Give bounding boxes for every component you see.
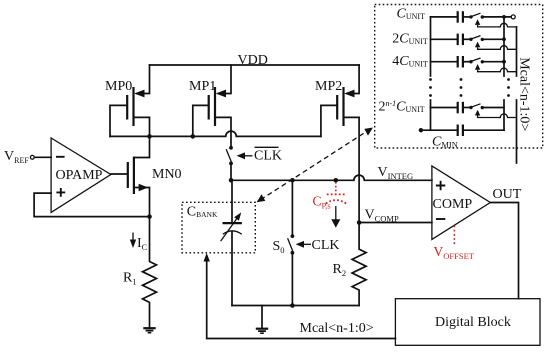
black arrow under CP,s	[331, 206, 340, 228]
svg-text:Mcal<n-1:0>: Mcal<n-1:0>	[300, 321, 374, 336]
resistor R2	[333, 223, 367, 306]
ellipsis dots	[429, 78, 510, 97]
node dot VCOMP/R2	[357, 220, 362, 225]
variable capacitor CBANK	[221, 180, 242, 305]
transistor MN0	[111, 136, 182, 216]
node dot CP branch	[334, 178, 339, 183]
VREF input terminal	[4, 149, 51, 165]
svg-text:OUT: OUT	[493, 187, 522, 202]
dashed detail pointer arrow (double headed)	[257, 128, 373, 203]
vertical bus segments bottom portion	[431, 100, 517, 149]
OUT wire	[490, 203, 518, 299]
transistor MP2	[315, 65, 359, 136]
svg-text:Digital Block: Digital Block	[435, 315, 511, 330]
node dot feedback/MN0 source	[147, 214, 152, 219]
op-amp U1 OPAMP	[51, 138, 111, 212]
transistor MP1	[189, 65, 231, 148]
MP2 drain wire down to VCOMP node	[358, 117, 360, 222]
transistor MP0	[105, 65, 150, 136]
feedback wire to + input	[34, 193, 149, 217]
detail row CMIN	[419, 125, 504, 150]
node dot S0 bottom	[290, 303, 295, 308]
current arrow IC	[130, 233, 148, 253]
capacitor CBANK dashed box	[182, 202, 255, 253]
switch CLKbar below MP1	[226, 146, 282, 180]
switch S0	[273, 180, 340, 305]
node dot MP0 drain/gate rail	[147, 134, 152, 139]
VDD rail	[150, 64, 360, 66]
parasitic capacitor CP,s (red)	[313, 182, 347, 211]
svg-text:VDD: VDD	[238, 53, 268, 68]
detail row 3 4CUNIT	[392, 54, 516, 72]
integration node wire VINTEG with hop over MP2 drain	[231, 175, 432, 180]
svg-text:MP0: MP0	[105, 79, 132, 94]
VCOMP wire	[359, 222, 432, 224]
Mcal feedback wire with up arrow into CBANK box	[204, 253, 396, 339]
node dot S0 branch	[290, 178, 295, 183]
svg-text:MP2: MP2	[315, 79, 342, 94]
svg-text:MN0: MN0	[152, 167, 182, 182]
Digital Block	[395, 299, 540, 346]
capacitor bank detail dashed box	[375, 5, 543, 149]
Mcal bus stub below detail box	[516, 149, 518, 164]
bottom rail	[232, 305, 359, 307]
svg-text:Mcal<n-1:0>: Mcal<n-1:0>	[516, 57, 531, 131]
ground under R1	[143, 328, 155, 333]
svg-text:COMP: COMP	[433, 197, 473, 212]
gate rail with hop over MP1 drain	[110, 131, 321, 136]
comparator U2 COMP	[432, 166, 490, 240]
svg-text:OPAMP: OPAMP	[56, 168, 103, 183]
svg-text:MP1: MP1	[189, 79, 216, 94]
detail row 2 2CUNIT	[392, 31, 516, 49]
svg-text:CLK: CLK	[254, 149, 282, 164]
node dot MP1 gate	[191, 134, 196, 139]
ground	[256, 306, 268, 334]
vertical bus segments top portion	[431, 17, 517, 76]
svg-text:CLK: CLK	[312, 238, 340, 253]
node dot CBANK branch	[229, 178, 234, 183]
VOFFSET (red)	[434, 226, 475, 262]
resistor R1	[123, 217, 157, 328]
detail row 1 CUNIT	[397, 6, 517, 27]
detail row 4 2^n-1 CUNIT	[379, 99, 517, 118]
